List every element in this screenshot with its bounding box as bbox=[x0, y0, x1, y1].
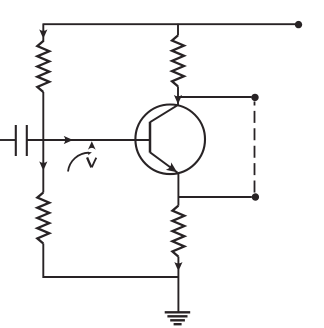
wire base node down to R2 bbox=[42, 140, 44, 193]
wire emitter to output node bbox=[178, 196, 251, 198]
wire RE bottom to ground bbox=[177, 257, 179, 312]
label v signal bbox=[87, 157, 91, 167]
wire top supply rail bbox=[43, 23, 296, 25]
wire input lead into capacitor bbox=[0, 139, 16, 141]
transistor Q1 collector lead bbox=[150, 105, 178, 122]
annotation wiggle arrowhead bbox=[87, 152, 92, 155]
annotation curved wiggle arrow bbox=[68, 153, 89, 172]
capacitor C1 left plate bbox=[15, 125, 17, 156]
transistor Q1 emitter lead bbox=[150, 152, 177, 172]
current arrow down into collector bbox=[174, 95, 182, 104]
resistor RC bbox=[172, 35, 184, 86]
wire RC bottom to collector bbox=[177, 86, 179, 104]
wire left branch: corner down to R1 bbox=[42, 23, 44, 42]
transistor Q1 emitter arrowhead bbox=[166, 162, 177, 172]
annotation small up arrowhead under base wire bbox=[88, 141, 96, 150]
resistor R1 bbox=[37, 41, 49, 92]
wire R1 bottom to base node bbox=[42, 92, 44, 140]
current arrow down from base node into R2 bbox=[39, 161, 47, 170]
resistor R2 bbox=[37, 193, 49, 244]
current arrow down to ground bbox=[174, 262, 182, 271]
transistor Q1 body circle bbox=[135, 105, 205, 175]
capacitor C1 right plate bbox=[26, 125, 28, 156]
node output top dot bbox=[251, 94, 258, 101]
resistor RE bbox=[172, 206, 184, 257]
wire base wire from capacitor to transistor base bbox=[27, 139, 150, 141]
node output bottom dot bbox=[252, 193, 259, 200]
wire emitter down to RE bbox=[177, 173, 179, 206]
wire R2 bottom to ground rail bbox=[43, 244, 178, 278]
wire collector to output node bbox=[178, 96, 251, 98]
wire top rail down to RC bbox=[177, 23, 179, 35]
current arrow right on base wire bbox=[64, 136, 73, 144]
ground symbol bbox=[165, 312, 191, 324]
current arrow down into R1 bbox=[39, 29, 47, 38]
wire dashed output port bbox=[254, 102, 256, 194]
transistor Q1 base bar bbox=[149, 122, 152, 153]
node Vcc terminal dot bbox=[295, 21, 302, 28]
